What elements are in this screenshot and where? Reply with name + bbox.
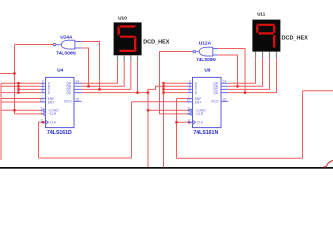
svg-text:14: 14 xyxy=(75,80,79,84)
nand U12A body (left-facing) xyxy=(199,47,213,56)
wire: QB row to display pin2 xyxy=(228,58,262,86)
svg-text:74LS00N: 74LS00N xyxy=(196,57,216,62)
wire: vertical x18.5 linking A-D rows xyxy=(18,83,20,92)
wire: U14A input1 to QC tap xyxy=(82,42,100,90)
junction U4 CLK pin xyxy=(42,121,44,123)
wire: QD row to display pin4 staircase to bundle xyxy=(82,86,164,92)
U11 digit 9 segments xyxy=(256,24,275,49)
wire: QC row to display pin3 xyxy=(228,58,269,89)
U9 right pin stubs xyxy=(221,83,228,101)
svg-text:U11: U11 xyxy=(257,11,266,16)
svg-text:2: 2 xyxy=(188,119,190,123)
wire: U9 B row feed xyxy=(164,85,188,87)
wire: QD row to display pin4 xyxy=(228,58,276,92)
svg-text:1: 1 xyxy=(188,110,190,114)
svg-text:RCO: RCO xyxy=(64,100,72,104)
U14A input stubs xyxy=(75,42,82,49)
junction U14A output branch xyxy=(13,72,15,74)
junction QD display pin4 xyxy=(136,91,138,93)
svg-text:QD: QD xyxy=(66,91,72,95)
junction A row tie xyxy=(17,82,19,84)
counter U9 body xyxy=(193,77,222,127)
junction QB tap xyxy=(87,85,89,87)
~CLR bubble xyxy=(43,113,45,115)
wire: U14A input2 to QB tap xyxy=(82,48,89,86)
svg-text:QD: QD xyxy=(213,91,219,95)
wire: ~LOAD row xyxy=(1,109,41,111)
wire: ~CLR row into pin xyxy=(15,113,44,115)
svg-text:U10: U10 xyxy=(118,16,127,22)
svg-text:6: 6 xyxy=(42,89,44,93)
wire: bottom clock bus left xyxy=(39,157,132,159)
wire: branch to left edge at y73.5 xyxy=(0,73,15,75)
junction QC tap xyxy=(98,88,100,90)
wire: bottom clock bus right xyxy=(177,157,303,159)
svg-text:U9: U9 xyxy=(205,68,211,73)
junction U9 CLK pin xyxy=(188,121,190,123)
junction rail U9-D feed xyxy=(162,91,164,93)
CLK wedge xyxy=(46,120,49,124)
svg-text:~CLR: ~CLR xyxy=(48,112,57,116)
svg-text:ENT: ENT xyxy=(195,100,202,104)
junction U9 LOAD feed xyxy=(147,109,149,111)
bottom border black line xyxy=(0,167,333,169)
wire: ENP row xyxy=(1,98,41,100)
wire: right riser x302.5 xyxy=(302,91,304,158)
U10 digit 5 segments xyxy=(118,25,137,52)
junction rail U9-A feed xyxy=(162,82,164,84)
U9 CLK wedge xyxy=(193,120,196,124)
wire: U12A input2 to QB tap xyxy=(218,55,237,86)
wire: right edge feed y92.5 xyxy=(303,90,333,92)
wire: U9 C row feed xyxy=(164,88,188,90)
junction C row tie xyxy=(17,88,19,90)
U14A output stub xyxy=(52,44,53,46)
nand U14A body (left-facing) xyxy=(61,40,75,49)
U9 left pin stubs xyxy=(187,83,193,122)
wire: U9 CLK feed xyxy=(177,121,188,123)
junction U9 CLK riser xyxy=(175,121,177,123)
wire: QB row to display pin2 xyxy=(82,62,125,87)
junction rail U9-C feed xyxy=(162,88,164,90)
svg-text:CLK: CLK xyxy=(50,121,57,125)
wire: gate U14A output to left xyxy=(15,44,54,46)
cursor mark bottom right xyxy=(324,161,333,167)
wire: C row xyxy=(19,88,41,90)
wire: display pin4 drop xyxy=(137,62,139,93)
junction staircase QD xyxy=(147,91,149,93)
svg-text:74LS161D: 74LS161D xyxy=(47,130,72,136)
svg-text:CLK: CLK xyxy=(197,121,204,125)
svg-text:ENT: ENT xyxy=(48,100,55,104)
~LOAD bubble xyxy=(43,109,45,111)
wire: U9 ~LOAD feed xyxy=(148,109,190,111)
U9 ~CLR bubble xyxy=(190,113,192,115)
svg-text:U4: U4 xyxy=(57,68,63,73)
wire: vertical x14.5 output net down to ~CLR row xyxy=(14,45,16,114)
svg-text:15: 15 xyxy=(222,98,226,102)
U4 left pin stubs xyxy=(41,83,46,122)
svg-text:74LS00N: 74LS00N xyxy=(56,51,76,56)
wire: U9 A row feed xyxy=(164,82,188,84)
wire: U12A input1 to QD tap xyxy=(218,49,245,93)
U4 interior pin names xyxy=(48,82,72,125)
svg-text:14: 14 xyxy=(222,80,226,84)
U9 interior pin names xyxy=(195,82,219,125)
U10 pins (gray) xyxy=(118,55,138,61)
wire: U9 ENP feed xyxy=(177,98,188,100)
svg-text:RCO: RCO xyxy=(211,100,219,104)
U12A output stub xyxy=(192,51,193,53)
display U10 bezel xyxy=(114,22,142,55)
wire: B row xyxy=(1,85,41,87)
svg-text:6: 6 xyxy=(189,89,191,93)
svg-text:74LS161N: 74LS161N xyxy=(193,130,218,136)
wire: U12A output net to ~CLR xyxy=(160,52,194,114)
U11 pins (gray) xyxy=(256,52,277,59)
U14A output bubble xyxy=(53,44,55,46)
U4 pin numbers xyxy=(40,80,79,123)
U9 pin numbers xyxy=(187,80,226,123)
display U11 bezel xyxy=(252,20,280,52)
svg-text:15: 15 xyxy=(75,98,79,102)
wire: vertical x131.5 bus riser xyxy=(131,102,133,158)
wire: QC row to display pin3 xyxy=(82,62,131,90)
wire: horizontal y101.3 xyxy=(132,101,188,103)
wire: QA row to display pin1 xyxy=(228,58,255,83)
U9 ~LOAD bubble xyxy=(190,109,192,111)
wire: vertical x176.5 clk riser xyxy=(176,99,178,159)
wire: bundle rail x163.5 down to black line xyxy=(163,83,165,167)
junction D row tie xyxy=(17,91,19,93)
junction rail U9-B feed xyxy=(162,85,164,87)
junction U9 QB tap xyxy=(236,85,238,87)
wire: QA row to display pin1 xyxy=(82,62,118,83)
svg-text:~CLR: ~CLR xyxy=(195,112,204,116)
wire: ENT row xyxy=(1,101,41,103)
counter U4 body xyxy=(46,77,75,127)
junction B row tie xyxy=(17,85,19,87)
svg-text:U12A: U12A xyxy=(199,40,212,46)
wire: D row xyxy=(1,92,41,94)
junction U4 LOAD row xyxy=(13,109,15,111)
wire: left rail vertical x1.5 xyxy=(0,83,2,160)
wire: CLK L from pin xyxy=(39,122,41,158)
wire: A row xyxy=(1,82,41,84)
U4 right pin stubs xyxy=(74,83,82,101)
U12A input stubs xyxy=(213,49,218,56)
svg-text:DCD_HEX: DCD_HEX xyxy=(143,40,170,46)
svg-text:10: 10 xyxy=(187,98,191,102)
svg-text:U14A: U14A xyxy=(60,35,73,40)
svg-text:DCD_HEX: DCD_HEX xyxy=(282,36,309,42)
wire: vertical x148 to black line xyxy=(147,93,149,168)
U12A output bubble xyxy=(193,50,195,52)
junction U9 QD tap xyxy=(244,91,246,93)
wire: U9 D row feed xyxy=(164,92,188,94)
